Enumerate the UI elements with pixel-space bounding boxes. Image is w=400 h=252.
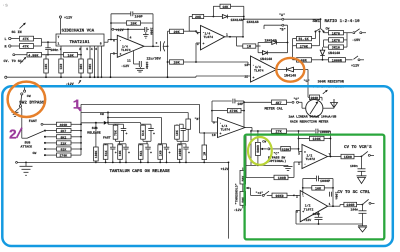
svg-text:13: 13 [244, 63, 248, 67]
svg-text:+: + [120, 52, 122, 56]
svg-text:100R: 100R [278, 176, 287, 181]
svg-text:METER CAL: METER CAL [265, 107, 283, 112]
svg-text:1K78: 1K78 [332, 31, 340, 36]
resistor 47K (R) [20, 44, 42, 50]
resistor 499R attack [43, 122, 81, 127]
svg-text:1N4148: 1N4148 [247, 20, 259, 25]
resistor 620K [267, 146, 299, 163]
node B stub [264, 24, 288, 42]
svg-text:500R: 500R [256, 145, 260, 153]
wire pin8 to opamp [104, 39, 117, 43]
svg-text:10: 10 [212, 133, 216, 137]
node B lower [195, 104, 218, 133]
switch sub attack [21, 119, 47, 156]
capacitor 100n U3B supply [329, 192, 338, 200]
svg-text:6: 6 [113, 38, 115, 42]
svg-text:180K: 180K [94, 150, 98, 158]
resistor release upper 2 [141, 124, 146, 141]
svg-text:SIDECHAIN VCA: SIDECHAIN VCA [62, 29, 95, 34]
svg-text:RELEASE: RELEASE [87, 130, 100, 134]
resistor 1K78 (ratio 1) [329, 31, 348, 37]
svg-text:10K: 10K [44, 64, 48, 70]
svg-text:30K: 30K [79, 64, 83, 70]
wire +in U2B [195, 43, 200, 63]
switch SW2 bypass [19, 87, 45, 139]
wire +in to bus [110, 53, 118, 78]
op-amp U3B 1/2 TL072 [296, 191, 331, 222]
resistor 100K feedback U3A [298, 136, 332, 142]
svg-text:1K0: 1K0 [158, 150, 162, 156]
svg-text:TL072: TL072 [304, 207, 314, 211]
capacitor 100n input [45, 42, 58, 55]
svg-text:9: 9 [213, 121, 215, 125]
svg-text:20K: 20K [174, 61, 181, 66]
svg-text:·s: ·s [2, 3, 8, 9]
svg-text:2K7: 2K7 [61, 129, 67, 133]
annotation orange ellipse diode [276, 58, 304, 82]
annotation green rectangle [245, 135, 385, 240]
svg-text:11: 11 [127, 59, 131, 63]
svg-text:THAT2181: THAT2181 [70, 40, 91, 45]
capacitor tantalum upper 2 [143, 124, 155, 144]
resistor 1000R [317, 56, 364, 69]
svg-text:10K: 10K [175, 130, 179, 136]
svg-text:30K: 30K [88, 64, 92, 70]
resistor 270K [293, 39, 320, 50]
resistor 470K feedback [212, 108, 244, 114]
resistor 10K [64, 53, 82, 59]
svg-text:+12V: +12V [64, 16, 73, 21]
svg-text:TL074: TL074 [121, 48, 131, 52]
wire ratio join / -15V [347, 29, 366, 47]
capacitor 100n supply [143, 27, 154, 38]
svg-text:CV TO SC CTRL: CV TO SC CTRL [338, 190, 371, 195]
capacitor 100n at vcr cv [350, 157, 366, 176]
svg-text:51.1K: 51.1K [299, 37, 310, 42]
resistor release upper 3 [175, 124, 180, 141]
svg-text:"O": "O" [294, 97, 300, 101]
wire join to pin1 [42, 39, 57, 47]
wire U2C lower input [196, 76, 251, 77]
resistor release upper 1 [113, 124, 123, 141]
svg-text:90K9: 90K9 [276, 194, 284, 199]
potentiometer threshold [221, 167, 262, 213]
svg-text:+: + [153, 132, 155, 136]
svg-text:1: 1 [58, 42, 60, 46]
meter M1 gain reduction [289, 100, 337, 124]
resistor 3K16 (ratio 4) [324, 40, 348, 51]
svg-text:82K: 82K [61, 148, 67, 152]
resistor release lower 5 [177, 144, 186, 163]
wire [60, 18, 62, 34]
svg-text:16K: 16K [315, 187, 322, 192]
svg-text:10P: 10P [237, 102, 243, 107]
svg-text:1M: 1M [203, 152, 207, 156]
capacitor tantalum lower 1 [110, 144, 117, 163]
resistor 90K9 [272, 193, 295, 199]
svg-text:+: + [253, 75, 255, 79]
resistor 1M [237, 37, 261, 50]
capacitor tantalum lower 3 [145, 144, 152, 163]
svg-text:TL074: TL074 [204, 35, 214, 39]
svg-text:499R: 499R [178, 148, 182, 156]
svg-text:7: 7 [58, 35, 60, 39]
svg-text:100n: 100n [50, 48, 58, 53]
resistor 8K2 attack [45, 135, 81, 140]
svg-text:2: 2 [9, 129, 17, 144]
IC U1 THAT2181 sidechain VCA [56, 29, 104, 52]
switch sub release contacts [81, 112, 111, 140]
svg-text:2: 2 [197, 31, 199, 35]
svg-text:SC IN: SC IN [12, 30, 22, 35]
svg-text:51K: 51K [141, 130, 145, 136]
capacitor 1000P feedback U3B [303, 176, 333, 185]
resistor 20K feedback [110, 21, 153, 40]
svg-text:TL074: TL074 [254, 68, 264, 72]
wire to release wiper [81, 121, 107, 125]
svg-text:5K1: 5K1 [139, 150, 143, 156]
resistor 21K attack [45, 141, 81, 146]
svg-text:10K: 10K [118, 150, 122, 156]
svg-text:270K: 270K [60, 154, 68, 158]
svg-text:"B": "B" [280, 28, 286, 33]
svg-text:1K78: 1K78 [332, 39, 340, 44]
svg-text:+: + [220, 132, 222, 136]
node R input [5, 45, 20, 50]
svg-text:4: 4 [91, 47, 93, 51]
svg-text:CW: CW [33, 151, 37, 155]
op-amp U2B 1/4 TL074 [197, 26, 228, 50]
svg-text:8: 8 [100, 42, 102, 46]
svg-text:1N4148: 1N4148 [328, 51, 340, 56]
svg-text:75K: 75K [114, 130, 118, 136]
node C [304, 70, 310, 96]
svg-text:+: + [128, 150, 130, 154]
resistor R6 vertical [59, 59, 64, 77]
svg-text:5: 5 [86, 47, 88, 51]
wire U2D -in [211, 101, 217, 122]
potentiometer 500R (circled) [255, 130, 269, 165]
svg-text:"+2": "+2" [256, 191, 264, 195]
resistor 1K00 output [341, 154, 362, 160]
capacitor 22u/35V [147, 41, 169, 61]
resistor 27K [272, 129, 300, 135]
svg-text:100P: 100P [135, 14, 143, 19]
ground vcr cv [357, 176, 367, 184]
annotation purple 1 [73, 99, 82, 114]
wire attack bus right [80, 113, 82, 156]
resistor 10K top feedback [213, 4, 244, 19]
svg-text:470K: 470K [230, 109, 239, 114]
svg-text:21K: 21K [61, 141, 67, 145]
wire opamp output [144, 45, 159, 47]
switch SW1 ratio [313, 18, 361, 45]
svg-text:+: + [115, 150, 117, 154]
svg-text:20K: 20K [195, 15, 202, 20]
svg-text:+: + [150, 150, 152, 154]
wire -12V bus [5, 76, 196, 87]
svg-text:47K: 47K [23, 45, 30, 50]
node +12V opamp supply [112, 28, 145, 40]
svg-text:20K: 20K [174, 30, 181, 35]
svg-text:ATTACK: ATTACK [21, 145, 33, 149]
switch CV TO VCR'S [344, 144, 374, 156]
capacitor 10P feedback [212, 99, 245, 128]
svg-text:-: - [304, 162, 306, 166]
op-amp U2D 1/4 TL074 meter driver [212, 118, 245, 138]
svg-text:1000P: 1000P [320, 179, 330, 184]
wire ground bus sc [296, 223, 363, 225]
resistor 51.1K [293, 36, 316, 42]
svg-text:1N4148: 1N4148 [260, 57, 272, 62]
svg-text:1M: 1M [247, 45, 251, 50]
svg-text:6: 6 [95, 47, 97, 51]
resistor 1K78 (ratio 2) [324, 38, 348, 44]
wire U3A output [328, 156, 342, 158]
wire pin2 down [60, 46, 62, 59]
ground meter [323, 99, 338, 108]
resistor 180K [94, 123, 99, 164]
capacitor 100P feedback [111, 11, 153, 46]
svg-text:L: L [5, 37, 7, 42]
diode 1N4148 feedback U2B [222, 15, 258, 26]
wire U3A -in feedback from 100R [294, 162, 302, 178]
svg-text:22u/35V: 22u/35V [147, 57, 162, 62]
resistor release lower 1 [103, 144, 110, 163]
annotation chartreuse ellipse [248, 137, 272, 165]
ground sc bus [358, 213, 367, 232]
resistor 20K lower branch [167, 43, 251, 78]
resistor R8 vertical [88, 59, 93, 77]
svg-text:300R RESISTOR: 300R RESISTOR [318, 80, 345, 85]
svg-text:8K2: 8K2 [61, 135, 67, 139]
svg-text:GAIN REDUCTION METER: GAIN REDUCTION METER [290, 120, 328, 124]
wire pin6 down [97, 46, 99, 77]
svg-text:CW: CW [27, 94, 31, 98]
capacitor tantalum upper 1 [116, 124, 128, 144]
wire U2D output to 27K [245, 128, 272, 132]
svg-text:1000R: 1000R [332, 58, 343, 63]
op-amp U2C 1/4 TL074 [244, 56, 276, 82]
svg-text:-12V: -12V [121, 64, 130, 69]
svg-text:TL072: TL072 [306, 157, 316, 161]
svg-text:-12V: -12V [234, 208, 243, 213]
svg-text:RATIO 1-2-4-10: RATIO 1-2-4-10 [325, 19, 361, 24]
resistor release lower 4 [158, 144, 167, 163]
resistor 200R meter [308, 80, 345, 101]
switch +2 [256, 191, 273, 197]
wire pot bottom bus / ground [246, 130, 293, 177]
resistor release lower 2 [118, 144, 126, 163]
resistor 100R u3a feedback [246, 175, 294, 181]
svg-text:4K7: 4K7 [276, 101, 282, 106]
op-amp U2A 1/4 TL074 [113, 35, 144, 57]
switch CV TO SC [4, 54, 28, 64]
capacitor 100n sc ctrl [351, 205, 367, 214]
svg-text:FAST: FAST [103, 136, 111, 140]
wire ground return left [228, 162, 230, 239]
resistor 47K (L) [20, 36, 42, 42]
resistor R7 vertical [79, 59, 84, 77]
svg-text:100n: 100n [350, 164, 358, 168]
svg-text:+12V: +12V [351, 63, 360, 68]
diode 1N4148 vertical [320, 47, 340, 60]
ground SW2 [12, 108, 21, 117]
capacitor tantalum lower 4 [164, 144, 171, 163]
svg-text:TANTALUM CAPS ON RELEASE: TANTALUM CAPS ON RELEASE [110, 169, 171, 174]
resistor R5 vertical [44, 59, 49, 77]
wire release row feeds [108, 113, 191, 144]
resistor 100R sc ctrl [344, 202, 364, 208]
capacitor tantalum lower 5 [183, 144, 190, 163]
capacitor tantalum lower 2 [123, 144, 130, 163]
svg-text:1: 1 [329, 202, 331, 206]
svg-text:20K: 20K [131, 22, 138, 27]
svg-text:TL074: TL074 [221, 128, 231, 132]
annotation blue rounded rect [2, 86, 393, 246]
capacitor tantalum upper 3 [177, 124, 188, 144]
switch CV TO SC CTRL [338, 190, 375, 204]
wire cap node to R5 [46, 55, 48, 59]
annotation purple 2 [9, 128, 22, 144]
svg-text:100n: 100n [351, 207, 359, 211]
svg-text:270K: 270K [300, 44, 309, 49]
capacitor 100n U3B -12V [304, 212, 323, 225]
resistor 20K upper branch [168, 29, 201, 43]
wire U3A +in [299, 131, 303, 152]
svg-text:SW2 BYPASS: SW2 BYPASS [19, 100, 45, 105]
svg-text:10K: 10K [68, 53, 75, 58]
diode 1N4148 lower [258, 43, 287, 63]
svg-text:FAST: FAST [29, 119, 37, 124]
resistor 2K7 attack [45, 129, 81, 134]
svg-text:+: + [188, 150, 190, 154]
wire U3B output [328, 205, 344, 208]
svg-text:47K: 47K [23, 37, 30, 42]
resistor 1M timing [202, 132, 207, 162]
svg-text:-: - [120, 38, 122, 42]
node +12V terminal [59, 16, 73, 34]
node A [279, 13, 285, 20]
diode 1N4148 mid [256, 38, 289, 52]
wire node A bus [243, 18, 321, 36]
svg-text:4.99K: 4.99K [28, 53, 39, 58]
wire pin4 down [94, 46, 96, 77]
svg-text:+: + [169, 150, 171, 154]
wire release ground bus [16, 162, 229, 164]
svg-text:-12V: -12V [304, 218, 312, 222]
resistor 4.99K [27, 53, 64, 59]
svg-text:4: 4 [130, 36, 132, 40]
wire U3B +in down [296, 211, 300, 225]
svg-text:3K16: 3K16 [332, 46, 340, 51]
svg-text:"C": "C" [304, 79, 310, 84]
svg-text:1mA LINEAR SCALE 100uA/dB: 1mA LINEAR SCALE 100uA/dB [289, 114, 337, 118]
svg-text:CW: CW [326, 27, 330, 31]
svg-text:620K: 620K [282, 147, 290, 151]
diode 1N4148 output (circled) [277, 67, 309, 78]
ground release bus [20, 162, 33, 175]
resistor release lower 3 [138, 144, 148, 163]
svg-text:"THRESHOLD": "THRESHOLD" [235, 183, 239, 204]
wire -12V opamp supply [121, 51, 149, 72]
svg-text:+: + [203, 42, 205, 46]
op-amp U3A 1/2 TL072 [298, 145, 331, 169]
svg-text:499R: 499R [60, 123, 68, 127]
svg-text:1N4148: 1N4148 [284, 74, 296, 79]
svg-text:1K0: 1K0 [59, 64, 63, 70]
svg-text:1: 1 [226, 33, 228, 37]
node SC IN [12, 23, 26, 35]
resistor 16K feedback U3B [294, 179, 334, 207]
capacitor 1000P feedback U3A [299, 129, 331, 157]
svg-text:100n: 100n [145, 62, 149, 70]
svg-text:+12V: +12V [116, 28, 125, 33]
svg-text:+12V: +12V [221, 167, 230, 172]
svg-text:+: + [126, 132, 128, 136]
resistor 82K attack [45, 147, 81, 152]
resistor 4K7 meter cal [244, 97, 306, 112]
node L input [5, 37, 20, 42]
svg-text:SW1: SW1 [313, 19, 321, 24]
resistor 68R [293, 46, 318, 64]
svg-text:51K: 51K [104, 150, 108, 156]
wire pin5 down [89, 46, 91, 59]
svg-text:10K: 10K [222, 5, 229, 10]
svg-text:"A": "A" [279, 13, 285, 18]
wire U2B output [225, 36, 244, 38]
svg-text:1N4148: 1N4148 [231, 18, 243, 23]
svg-text:100K: 100K [313, 137, 322, 142]
svg-text:+: + [156, 41, 158, 45]
resistor 20K feedback U2B [189, 14, 222, 31]
annotation orange ellipse SW2 [8, 82, 46, 117]
svg-text:-15V: -15V [352, 38, 361, 43]
wire pin3 down [80, 46, 82, 59]
svg-text:100n: 100n [313, 212, 321, 216]
resistor 270K attack [45, 153, 81, 158]
svg-text:3: 3 [298, 151, 300, 155]
svg-text:1K00: 1K00 [344, 155, 352, 160]
wire corner node 1 [81, 104, 200, 112]
